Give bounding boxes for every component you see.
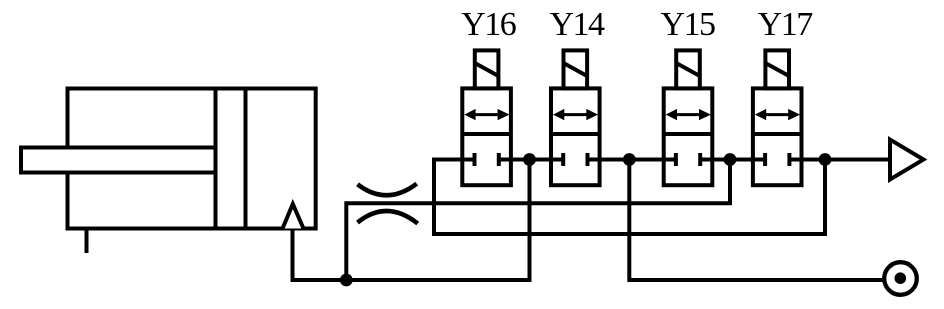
wire: dot1 down-leg and bottom line to bottom-left junction bbox=[346, 160, 529, 281]
pressure source circle with dot bbox=[884, 262, 917, 295]
cylinder piston rod bbox=[21, 148, 216, 173]
junction dot3 bbox=[724, 153, 737, 166]
wire: valve Y17 to exhaust triangle bbox=[802, 158, 890, 162]
valve Y16 (2/2 solenoid valve) bbox=[462, 50, 511, 185]
valve Y14 (2/2 solenoid valve) bbox=[551, 50, 600, 185]
cylinder piston left face bbox=[214, 89, 218, 229]
cylinder cushion triangle bbox=[283, 204, 304, 229]
wire: valve Y14 to valve Y15 bbox=[600, 158, 664, 162]
junction dot2 bbox=[623, 153, 636, 166]
throttle valve upper arc bbox=[358, 184, 417, 196]
junction dot1 bbox=[523, 153, 536, 166]
throttle valve lower arc bbox=[358, 211, 418, 223]
svg-text:Y17: Y17 bbox=[758, 6, 814, 43]
svg-text:Y15: Y15 bbox=[660, 6, 715, 43]
valve Y17 (2/2 solenoid valve) bbox=[753, 50, 802, 185]
wire: valve Y16 to valve Y14 bbox=[511, 158, 551, 162]
wire: main line left end, down-leg, bottom middle line, riser to dot4 bbox=[434, 160, 825, 235]
junction dot4 bbox=[819, 153, 832, 166]
svg-text:Y14: Y14 bbox=[549, 6, 605, 43]
valve Y15 (2/2 solenoid valve) bbox=[664, 50, 713, 185]
junction dot at bottom-left node bbox=[340, 274, 353, 287]
wire: bottom junction riser and throttle line to valve Y15 branch riser bbox=[346, 160, 730, 281]
svg-text:Y16: Y16 bbox=[461, 6, 516, 43]
wire: dot2 down-leg and bottom line to source circle bbox=[629, 160, 884, 281]
cylinder body bbox=[68, 89, 316, 229]
wire: cylinder port to bottom junction bbox=[293, 229, 347, 281]
cylinder left port stub bbox=[85, 229, 89, 254]
cylinder piston right face bbox=[244, 89, 248, 229]
exhaust triangle bbox=[890, 140, 924, 180]
wire: valve Y15 to valve Y17 bbox=[712, 158, 753, 162]
